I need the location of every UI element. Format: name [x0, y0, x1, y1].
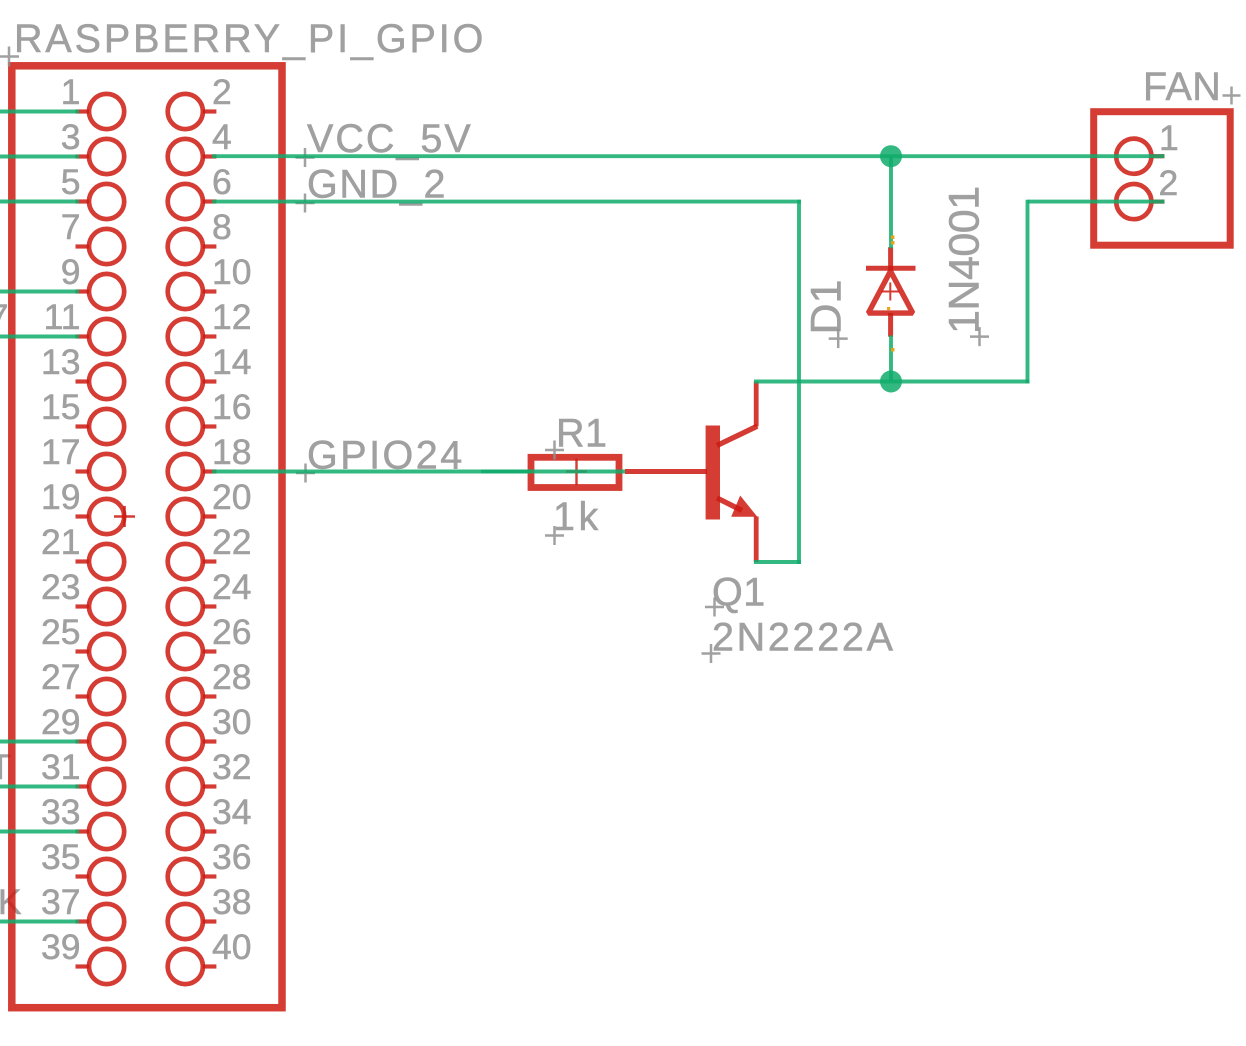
svg-text:21: 21	[41, 522, 81, 562]
wire net pin 31 to left edge	[0, 785, 79, 789]
pin 13	[41, 342, 124, 399]
pin-join mark above D1 lower	[891, 241, 895, 245]
wire net pin 9 to left edge	[0, 290, 79, 294]
pin 15	[41, 387, 124, 444]
pin 18	[168, 432, 252, 489]
svg-text:FAN: FAN	[1143, 65, 1221, 109]
diode D1	[866, 247, 916, 337]
wire VCC_5V pin4 to FAN pin1	[212, 154, 1165, 158]
svg-text:2N2222A: 2N2222A	[712, 616, 896, 660]
pin 2	[168, 72, 232, 129]
svg-text:14: 14	[212, 342, 252, 382]
wire GND_2 pin6 horizontal	[212, 200, 801, 204]
wire net pin 11 to left edge	[0, 335, 79, 339]
pin 21	[41, 522, 124, 579]
svg-text:20: 20	[212, 477, 252, 517]
junction VCC_5V / D1	[880, 145, 902, 167]
pin 24	[168, 567, 252, 624]
pin 40	[168, 927, 252, 984]
pin 26	[168, 612, 252, 669]
wire net pin 1 to left edge	[0, 110, 79, 114]
wire net pin 5 to left edge	[0, 200, 79, 204]
pin 14	[168, 342, 252, 399]
pin 38	[168, 882, 252, 939]
svg-text:13: 13	[41, 342, 81, 382]
pin 39	[41, 927, 124, 984]
pin 29	[41, 702, 124, 759]
svg-text:39: 39	[41, 927, 81, 967]
svg-text:23: 23	[41, 567, 81, 607]
svg-text:26: 26	[212, 612, 252, 652]
svg-text:5: 5	[61, 162, 81, 202]
wire diode anode to collector node	[889, 336, 893, 382]
svg-text:7: 7	[61, 207, 81, 247]
wire GND_2 to emitter	[754, 560, 801, 564]
svg-text:9: 9	[61, 252, 81, 292]
wire diode cathode to VCC	[889, 156, 893, 248]
svg-text:8: 8	[212, 207, 232, 247]
svg-text:22: 22	[212, 522, 252, 562]
svg-text:4: 4	[212, 117, 232, 157]
part origin cross RASPBERRY_PI_GPIO	[114, 506, 135, 527]
svg-text:3: 3	[61, 117, 81, 157]
pin 9	[61, 252, 124, 309]
pin 22	[168, 522, 252, 579]
pin 32	[168, 747, 252, 804]
pin 16	[168, 387, 252, 444]
FAN pin 1	[1116, 118, 1179, 174]
wire net pin 3 to left edge	[0, 155, 79, 159]
pin 4	[168, 117, 232, 174]
pin-join mark inside D1	[887, 307, 890, 310]
svg-text:10: 10	[212, 252, 252, 292]
wire net pin 33 to left edge	[0, 830, 79, 834]
wire FAN net vertical	[1026, 200, 1030, 384]
svg-text:40: 40	[212, 927, 252, 967]
svg-text:1N4001: 1N4001	[941, 186, 989, 334]
pin 25	[41, 612, 124, 669]
svg-text:6: 6	[212, 162, 232, 202]
pin 10	[168, 252, 252, 309]
FAN pin 2	[1116, 163, 1178, 219]
pin 28	[168, 657, 252, 714]
svg-text:12: 12	[212, 297, 252, 337]
pin 8	[168, 207, 232, 264]
pin 37	[41, 882, 124, 939]
svg-text:2: 2	[212, 72, 232, 112]
svg-text:2: 2	[1159, 163, 1179, 203]
pin 23	[41, 567, 124, 624]
wire net pin 37 to left edge	[0, 920, 79, 924]
svg-text:16: 16	[212, 387, 252, 427]
pin 36	[168, 837, 252, 894]
pin 27	[41, 657, 124, 714]
svg-text:36: 36	[212, 837, 252, 877]
wire GND_2 vertical	[797, 200, 801, 564]
wire GPIO24 pin18 segment	[212, 470, 530, 474]
svg-text:1: 1	[61, 72, 81, 112]
pin 19	[41, 477, 124, 534]
pin 17	[41, 432, 124, 489]
pin 31	[41, 747, 124, 804]
svg-text:28: 28	[212, 657, 252, 697]
transistor Q1	[625, 382, 757, 563]
pin 35	[41, 837, 124, 894]
pin 5	[61, 162, 124, 219]
svg-text:24: 24	[212, 567, 252, 607]
svg-text:35: 35	[41, 837, 81, 877]
pin 30	[168, 702, 252, 759]
connector FAN outline	[1094, 112, 1231, 246]
pin 20	[168, 477, 252, 534]
svg-text:33: 33	[41, 792, 81, 832]
pin 1	[61, 72, 124, 129]
svg-text:18: 18	[212, 432, 252, 472]
pin 33	[41, 792, 124, 849]
wire collector node horizontal	[754, 380, 1029, 384]
pin 34	[168, 792, 252, 849]
pin-join mark above D1	[891, 236, 895, 240]
svg-text:31: 31	[41, 747, 81, 787]
connector RASPBERRY_PI_GPIO outline	[12, 66, 282, 1008]
pin 6	[168, 162, 232, 219]
wire GPIO24 to R1 segment	[481, 470, 625, 474]
svg-text:29: 29	[41, 702, 81, 742]
svg-text:15: 15	[41, 387, 81, 427]
pin 3	[61, 117, 124, 174]
pin-join mark below D1	[891, 348, 895, 352]
svg-text:27: 27	[41, 657, 81, 697]
wire FAN pin2 horizontal	[1028, 200, 1165, 204]
wire net pin 29 to left edge	[0, 740, 79, 744]
pin 7	[61, 207, 124, 264]
svg-text:RASPBERRY_PI_GPIO: RASPBERRY_PI_GPIO	[14, 17, 486, 61]
svg-text:34: 34	[212, 792, 252, 832]
svg-text:32: 32	[212, 747, 252, 787]
svg-text:D1: D1	[803, 280, 851, 335]
svg-text:38: 38	[212, 882, 252, 922]
junction D1 / collector node	[880, 371, 902, 393]
resistor R1 body	[531, 457, 619, 487]
svg-text:37: 37	[41, 882, 81, 922]
svg-text:GPIO7: GPIO7	[0, 297, 9, 337]
svg-text:1k: 1k	[553, 495, 602, 539]
svg-text:11: 11	[44, 297, 81, 337]
svg-text:30: 30	[212, 702, 252, 742]
svg-text:25: 25	[41, 612, 81, 652]
svg-text:17: 17	[41, 432, 81, 472]
pin 12	[168, 297, 252, 354]
svg-text:1: 1	[1159, 118, 1179, 158]
pin 11	[44, 297, 125, 354]
svg-text:19: 19	[41, 477, 81, 517]
